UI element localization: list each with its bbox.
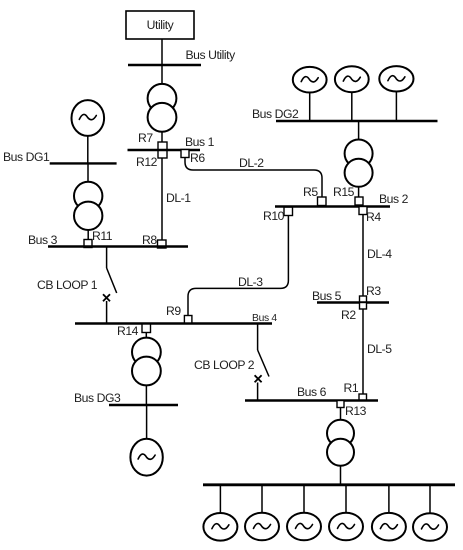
wire transformer DG3 to Bus DG3 [145, 385, 147, 405]
svg-text:Bus 6: Bus 6 [297, 385, 327, 399]
svg-text:DL-2: DL-2 [239, 156, 264, 170]
wire to gen B1 [219, 485, 221, 513]
wire gen2 to Bus DG2 [351, 92, 353, 121]
wire Bus DG1 to transformer [87, 163, 89, 182]
wire DL-2 [185, 158, 322, 198]
relay R1 [359, 394, 367, 401]
bus Bus DG3 [109, 404, 178, 406]
wire transformer to R11 [87, 230, 89, 240]
svg-text:CB LOOP 1: CB LOOP 1 [37, 278, 98, 292]
relay R12 [158, 150, 167, 158]
svg-text:R15: R15 [333, 185, 355, 199]
svg-text:Bus 4: Bus 4 [252, 313, 277, 324]
relay R7 [158, 142, 167, 150]
generator B5 [372, 513, 406, 541]
wire to gen B3 [303, 485, 305, 513]
relay R2 [360, 303, 367, 310]
svg-text:Bus Utility: Bus Utility [186, 48, 237, 62]
svg-text:DL-3: DL-3 [238, 275, 263, 289]
bus Bus DG2 [276, 120, 438, 122]
relay R15 [355, 197, 363, 205]
wire to gen B5 [388, 485, 390, 513]
wire generator to Bus DG1 [87, 136, 89, 164]
relay R3 [360, 296, 367, 303]
relay R6 [181, 150, 189, 158]
svg-text:R10: R10 [263, 209, 285, 223]
wire transformer DG2 to Bus 2 [358, 187, 360, 197]
svg-text:Bus 2: Bus 2 [379, 192, 409, 206]
svg-text:CB LOOP 2: CB LOOP 2 [194, 358, 255, 372]
svg-text:R12: R12 [136, 155, 158, 169]
wire DL-5 [362, 309, 364, 395]
relay R5 [318, 197, 327, 206]
generator B2 [245, 513, 279, 541]
relay R9 [184, 316, 192, 324]
transformer bottom [327, 420, 354, 466]
wire DL-4 [362, 215, 364, 297]
switch CB LOOP 2 [255, 324, 269, 401]
generator B4 [329, 513, 363, 541]
bus Bus 5 [317, 301, 389, 303]
svg-text:Bus 3: Bus 3 [28, 233, 58, 247]
svg-text:R5: R5 [303, 185, 318, 199]
relay R10 [284, 207, 293, 216]
transformer DG3 [132, 338, 161, 386]
svg-text:Bus DG2: Bus DG2 [252, 107, 299, 121]
wire to gen B2 [261, 485, 263, 513]
generator DG1 [72, 100, 105, 136]
wire to gen B4 [345, 485, 347, 513]
svg-text:R4: R4 [366, 210, 381, 224]
generator B3 [287, 513, 321, 541]
bus Bus 1 [128, 149, 201, 151]
wire gen3 to Bus DG2 [395, 92, 397, 122]
wire DL-3 [188, 216, 288, 316]
svg-text:R9: R9 [166, 304, 181, 318]
generator DG2-1 [293, 67, 327, 93]
transformer DG2 [345, 140, 373, 187]
svg-text:R2: R2 [341, 308, 356, 322]
wire to gen B6 [429, 485, 431, 513]
generator DG2-3 [379, 66, 413, 91]
svg-text:R11: R11 [92, 229, 113, 243]
svg-text:R7: R7 [138, 131, 153, 145]
svg-text:R6: R6 [190, 151, 205, 165]
bus bottom generators [203, 483, 455, 486]
generator B6 [413, 513, 447, 541]
wire gen1 to Bus DG2 [309, 93, 311, 122]
utility source box [126, 11, 194, 39]
bus Bus 4 [75, 322, 272, 324]
wire DL-1 [161, 158, 163, 240]
svg-text:Bus DG1: Bus DG1 [3, 150, 50, 164]
relay R13 [337, 401, 344, 408]
wire Bus DG3 to generator DG3 [146, 405, 148, 439]
bus Bus 6 [245, 399, 378, 401]
bus Bus 3 [48, 245, 188, 247]
svg-text:R3: R3 [366, 284, 381, 298]
svg-text:DL-1: DL-1 [166, 191, 191, 205]
transformer DG1 [74, 182, 102, 230]
wire R13 to transformer bottom [340, 408, 342, 420]
wire transformer bottom to bottom bus [340, 466, 342, 485]
relay R11 [84, 240, 92, 248]
generator DG3 [130, 439, 162, 476]
generator B1 [203, 513, 237, 541]
svg-text:R1: R1 [344, 381, 359, 395]
bus Bus 2 [275, 205, 390, 207]
svg-text:R8: R8 [142, 233, 157, 247]
svg-text:Bus 1: Bus 1 [185, 135, 215, 149]
wire transformer to R7 [161, 131, 163, 143]
svg-text:Bus DG3: Bus DG3 [74, 391, 121, 405]
relay R4 [359, 207, 367, 215]
relay R8 [158, 240, 167, 248]
wire Bus DG2 to transformer [358, 121, 360, 140]
bus Bus DG1 [50, 162, 117, 164]
svg-text:Utility: Utility [147, 18, 175, 32]
wire utility box to Bus Utility [161, 39, 163, 65]
svg-text:Bus 5: Bus 5 [312, 289, 342, 303]
switch CB LOOP 1 [103, 247, 117, 324]
svg-text:R13: R13 [345, 404, 367, 418]
svg-text:DL-4: DL-4 [367, 247, 392, 261]
svg-text:DL-5: DL-5 [367, 342, 392, 356]
bus Bus Utility [128, 64, 201, 66]
transformer utility [148, 84, 177, 132]
wire Bus Utility to transformer [161, 65, 163, 85]
svg-text:R14: R14 [117, 324, 139, 338]
generator DG2-2 [335, 66, 369, 92]
wire R14 to transformer DG3 [145, 333, 147, 339]
relay R14 [142, 324, 151, 333]
